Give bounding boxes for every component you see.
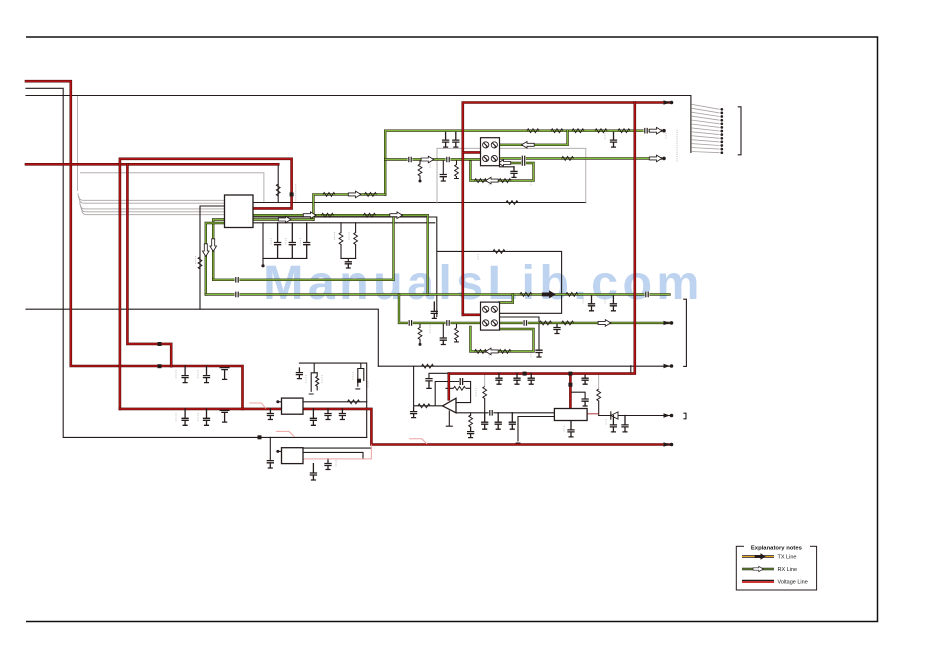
arrow RX a6 xyxy=(390,212,403,219)
voltage rail x635 xyxy=(449,103,635,374)
resistor R60 riser xyxy=(484,374,486,387)
node sq2 xyxy=(158,364,162,368)
wire black line under U1 to filter xyxy=(253,202,586,204)
arrow RX a5 xyxy=(303,212,316,219)
capacitor C64 xyxy=(582,399,588,406)
crystal box outline xyxy=(299,363,366,437)
IC U1 xyxy=(225,195,254,228)
capacitor C20 xyxy=(296,368,302,379)
capacitor C63 xyxy=(568,421,574,437)
capacitor series C71 xyxy=(408,157,413,163)
connector bracket xyxy=(738,107,741,155)
capacitor C31 feedback xyxy=(460,379,462,385)
svg-text:Explanatory notes: Explanatory notes xyxy=(751,545,803,551)
wire RX net1 lower link xyxy=(313,194,385,219)
node U2 input dot xyxy=(276,400,279,403)
wire U1 input stub xyxy=(200,206,225,309)
transceiver block 1 left cluster xyxy=(442,160,444,175)
resistor R20 xyxy=(493,250,505,254)
resistor R13 xyxy=(355,223,357,233)
capacitor C55 xyxy=(536,350,542,357)
capacitor C99 xyxy=(339,409,345,420)
capacitor series C72 xyxy=(446,157,451,163)
grey highlight box transceiver 1 xyxy=(437,148,586,203)
op-amp U5 xyxy=(443,398,457,413)
resistor R12 xyxy=(340,223,342,233)
resistor RG17 xyxy=(499,350,511,354)
resistor RG0 xyxy=(527,129,539,133)
arrow RX a4 xyxy=(348,191,361,198)
capacitor C10 xyxy=(262,223,264,259)
resistor RG11 xyxy=(562,157,574,161)
wire grey riser from top rail xyxy=(77,96,79,191)
resistor RG1 xyxy=(551,129,563,133)
capacitor C21 xyxy=(267,461,273,468)
capacitor C93 xyxy=(182,409,188,425)
transistor block Q1 xyxy=(481,138,500,166)
capacitor C53 xyxy=(589,294,595,310)
wire RX net1 branch to block1 xyxy=(385,158,480,160)
diode D1 xyxy=(611,412,618,419)
crystal Y1 xyxy=(309,363,317,394)
wire opamp supply black stub xyxy=(429,373,449,378)
voltage line left loop A xyxy=(26,81,243,409)
wire RX block1 top stub xyxy=(499,131,567,145)
capacitor C62b xyxy=(509,413,515,429)
arrow RX a11 xyxy=(522,142,535,149)
svg-text:TX Line: TX Line xyxy=(778,555,797,561)
capacitor C43 xyxy=(511,167,517,178)
wire regulator ground pin xyxy=(516,417,554,444)
wire U3 pins right xyxy=(303,448,371,459)
capacitor C97 xyxy=(310,409,316,425)
resistor R40 xyxy=(456,160,458,165)
resistor R50 xyxy=(456,323,458,328)
node U3 input dot xyxy=(276,450,279,453)
capacitor series C73 xyxy=(521,160,526,166)
wire output riser grey xyxy=(598,374,600,390)
label leader 2 xyxy=(276,431,295,436)
capacitor series C74 xyxy=(521,156,526,162)
wire U3 left branch xyxy=(269,437,271,460)
capacitor C32 xyxy=(468,427,474,438)
capacitor C91 xyxy=(204,366,210,382)
capacitor C50 xyxy=(440,338,446,345)
wire block1 right stub xyxy=(499,166,514,168)
capacitor C14 xyxy=(345,262,351,268)
voltage line 2 xyxy=(26,163,278,166)
capacitor C103 xyxy=(528,374,534,385)
capacitor series C75 xyxy=(235,292,240,298)
component value labels xyxy=(295,184,297,202)
arrow TX a8 xyxy=(542,291,555,298)
voltage light loop U3 xyxy=(303,445,371,459)
legend TX line xyxy=(742,555,774,557)
arrow RX a10 xyxy=(498,160,511,167)
capacitor series C70 xyxy=(644,128,649,134)
capacitor C98 xyxy=(325,409,331,420)
node sq1 xyxy=(158,342,162,346)
svg-text:Voltage Line: Voltage Line xyxy=(778,580,808,586)
capacitor series C80 xyxy=(523,320,528,326)
node junction bottom rail xyxy=(258,435,262,439)
capacitor C22 xyxy=(310,464,316,480)
label leader 1 xyxy=(249,403,266,409)
wire RX block2 output xyxy=(499,322,669,324)
wire lower-left rail xyxy=(26,309,378,366)
capacitor C90 xyxy=(182,366,188,382)
capacitor C13 xyxy=(304,223,310,259)
arrow RX a3 xyxy=(421,156,434,163)
grey box outline upper xyxy=(80,173,264,202)
capacitor C65 xyxy=(610,416,616,432)
arrow RX a1 xyxy=(649,127,662,134)
capacitor C51 xyxy=(431,302,437,318)
voltage branch regulator xyxy=(569,374,572,409)
resistor RG10 xyxy=(499,179,511,183)
resistor R11 xyxy=(506,201,518,205)
capacitor C61 xyxy=(482,413,488,429)
resistor RG13 xyxy=(566,293,578,297)
wire RX line4 long xyxy=(206,293,670,295)
label leader 3 xyxy=(409,439,427,444)
resistor RG7 xyxy=(322,213,334,217)
resistor R14 xyxy=(198,257,202,269)
wire RX drop to block2 xyxy=(399,294,481,323)
arrow RX a2 xyxy=(649,155,662,162)
capacitor C42 xyxy=(453,131,459,147)
capacitor C44 xyxy=(611,131,617,147)
capacitor C92 xyxy=(220,368,229,380)
transceiver block 2 left cluster xyxy=(442,323,444,338)
wire RX stub U1 a xyxy=(213,220,224,280)
node green terminal 1 xyxy=(662,129,666,133)
resistor RG4 xyxy=(618,129,630,133)
arrow RX v1 xyxy=(203,244,210,257)
wire audio output line xyxy=(378,365,670,367)
arrow RX a9 xyxy=(486,177,499,184)
wire pull-up riser xyxy=(277,164,279,202)
resistor R33 xyxy=(470,413,472,416)
resistor R10 xyxy=(276,184,280,196)
arrow RX a7 xyxy=(598,320,611,327)
wire RX block2 loop xyxy=(470,327,533,351)
capacitor C62 xyxy=(495,413,501,429)
schematic page frame xyxy=(26,37,878,622)
wire ground bus caps xyxy=(263,258,307,264)
capacitor C52 xyxy=(554,323,560,334)
arrow RX a12 xyxy=(486,348,499,355)
grey data bus wires into U1 xyxy=(78,193,225,200)
label vertical text connector xyxy=(676,130,678,163)
wire U1 lower bus xyxy=(253,217,562,317)
node red terminal top xyxy=(664,100,671,104)
wire RX block1 loop xyxy=(470,162,533,181)
wire box jog xyxy=(630,366,632,374)
arrow RX v2 xyxy=(210,239,217,252)
smd part xyxy=(357,379,361,383)
capacitor C54 xyxy=(610,294,616,310)
IC U4 regulator xyxy=(554,409,587,421)
connector pin dots xyxy=(720,108,723,111)
wire block2 right stubs xyxy=(499,317,539,350)
capacitor series C78 xyxy=(408,320,413,326)
resistor RG14 xyxy=(540,321,552,325)
capacitor C40 xyxy=(440,175,446,182)
resistor R32 feedback xyxy=(454,386,466,390)
wire branch to C64 xyxy=(570,392,585,399)
legend RX line xyxy=(742,568,774,570)
arrow RX a5b xyxy=(278,216,291,223)
wire opamp input branch xyxy=(414,366,443,406)
legend voltage line xyxy=(742,579,774,581)
wire RX green2 from U1 xyxy=(253,218,313,220)
node green terminal 3 xyxy=(664,321,671,325)
capacitor series C79 xyxy=(446,320,451,326)
voltage stub block2 xyxy=(463,313,481,316)
capacitor C66 xyxy=(622,416,628,432)
capacitor C41 xyxy=(443,131,449,147)
resistor RG9 xyxy=(475,179,487,183)
capacitor C67 xyxy=(582,374,588,385)
capacitor C96 xyxy=(267,409,273,420)
voltage thin stub regulator out xyxy=(587,413,599,415)
wire resistor join xyxy=(341,258,356,261)
capacitor C33 xyxy=(426,379,432,389)
resistor R51 to ground xyxy=(419,323,421,328)
wire long top rail to connector xyxy=(26,96,691,153)
node output terminal 2 xyxy=(664,413,671,417)
wire feedback loop xyxy=(435,382,470,406)
capacitor C94 xyxy=(204,409,210,425)
IC U3 xyxy=(282,448,304,464)
transistor block Q2 xyxy=(481,302,500,330)
crystal Y2 xyxy=(356,363,364,389)
bracket output small xyxy=(684,413,686,419)
connector fan wires xyxy=(691,104,719,109)
resistor RG5 xyxy=(323,193,335,197)
capacitor C101 xyxy=(496,374,502,385)
capacitor series C77 xyxy=(235,277,240,283)
node sq3 xyxy=(290,192,294,196)
node sq4 xyxy=(523,372,527,376)
voltage supply riser right xyxy=(463,103,672,315)
wire RX line3 xyxy=(213,215,393,280)
node sq6 xyxy=(568,372,572,376)
wire RX net1 main xyxy=(385,131,661,195)
capacitor series C76 xyxy=(645,292,650,298)
bracket output group xyxy=(684,299,687,366)
resistor RG6 xyxy=(365,193,377,197)
voltage opamp supply xyxy=(447,374,450,400)
voltage detour xyxy=(127,164,171,366)
capacitor C30 xyxy=(411,407,417,418)
capacitor C23 xyxy=(325,459,331,470)
resistor RG3 xyxy=(595,129,607,133)
IC U2 xyxy=(282,398,304,414)
capacitor C11 xyxy=(275,223,281,259)
legend explanatory notes xyxy=(736,543,816,591)
resistor RG15 xyxy=(562,321,574,325)
svg-text:RX Line: RX Line xyxy=(778,567,798,573)
node green terminal 2 xyxy=(662,157,666,161)
capacitor C95 xyxy=(220,410,229,422)
capacitor C12 xyxy=(289,223,295,259)
wire lower input to regulator xyxy=(456,412,554,414)
wire RX block1 output xyxy=(499,157,661,159)
voltage U1 supply loop xyxy=(120,159,292,409)
resistor R21 xyxy=(348,400,360,404)
node red terminal bottom xyxy=(664,442,671,446)
wire RX block2 top stub xyxy=(499,294,512,302)
voltage stub block1 xyxy=(463,151,481,154)
capacitor C102 xyxy=(514,374,520,385)
wire RX line from U1 xyxy=(253,215,428,294)
resistor RG8 xyxy=(364,213,376,217)
resistor RG12 xyxy=(520,293,532,297)
resistor R30 xyxy=(422,364,434,368)
resistor R31 xyxy=(418,404,430,408)
ground bus dot xyxy=(261,264,264,267)
resistor R41 to ground xyxy=(419,160,421,165)
wire U2 pins xyxy=(303,401,367,403)
voltage main lower rail xyxy=(120,409,672,445)
resistor RG16 xyxy=(475,350,487,354)
wire regulator output xyxy=(599,415,671,417)
wire left rail black L xyxy=(26,88,367,437)
wire RX stub U1 b xyxy=(206,223,225,294)
resistor RG2 xyxy=(572,129,584,133)
node output terminal 1 xyxy=(664,364,671,368)
capacitor C60 series xyxy=(489,410,494,416)
node sq5 xyxy=(568,383,572,387)
